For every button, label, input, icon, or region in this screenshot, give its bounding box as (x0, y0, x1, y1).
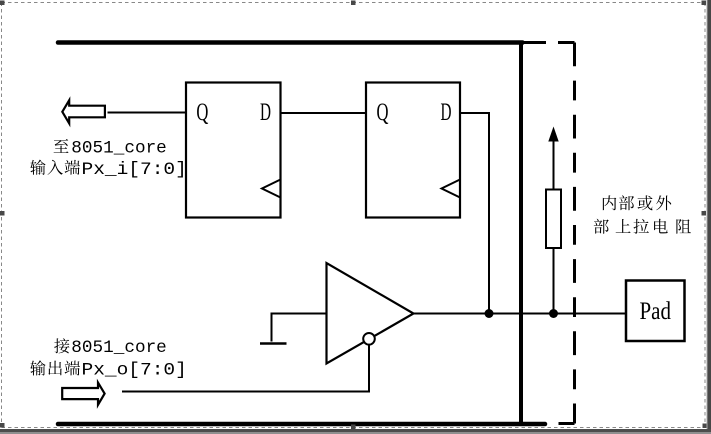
svg-text:Q: Q (196, 99, 208, 126)
svg-text:Px_i[7:0]: Px_i[7:0] (82, 160, 187, 180)
svg-text:Q: Q (377, 99, 389, 126)
svg-text:D: D (441, 99, 452, 126)
svg-text:Pad: Pad (640, 298, 672, 325)
svg-text:Px_o[7:0]: Px_o[7:0] (82, 361, 187, 381)
svg-text:8051_core: 8051_core (71, 338, 167, 358)
svg-text:D: D (260, 99, 271, 126)
svg-text:8051_core: 8051_core (71, 138, 167, 158)
